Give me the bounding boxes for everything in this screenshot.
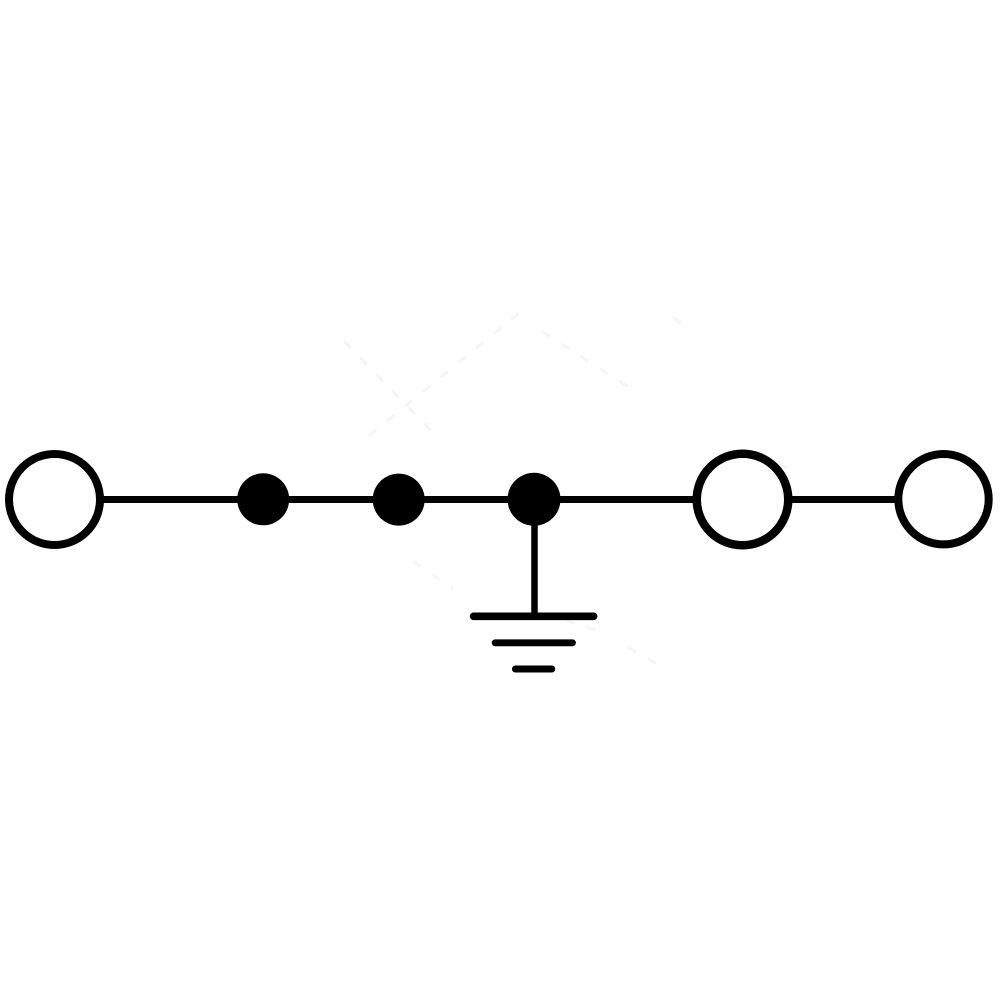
wire: ground drop from junction node bbox=[531, 500, 538, 615]
node dot 2 (filled junction) bbox=[373, 474, 425, 526]
terminal X2 (middle open circle) bbox=[697, 454, 789, 546]
terminal X3 (right open circle) bbox=[898, 454, 988, 544]
terminal X1 (left open circle) bbox=[9, 454, 100, 545]
ground symbol bbox=[474, 616, 594, 669]
wire: conductor between middle terminal and right terminal bbox=[791, 496, 895, 503]
wire: main horizontal conductor from left terminal to middle terminal bbox=[100, 496, 694, 503]
node dot 1 (filled junction) bbox=[237, 473, 289, 525]
junction node A (filled, ground tap) bbox=[508, 473, 561, 526]
faint watermark residue (decorative-free zone intentionally unlabeled) bbox=[345, 314, 790, 668]
